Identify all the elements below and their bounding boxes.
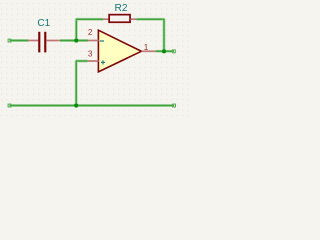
wire: input net from left end to C1 [10,39,29,42]
capacitor C1 pin 1 lead [28,40,38,42]
svg-text:R2: R2 [115,3,128,14]
svg-text:1: 1 [144,43,149,52]
wire: right vertical down to output [163,19,166,52]
op-amp U1 pin 1 lead (output) [142,50,156,52]
op-amp U1 body [98,30,141,72]
pin name minus [100,40,104,42]
svg-text:2: 2 [88,28,93,37]
resistor R2 pin 1 lead [103,18,109,20]
wire: vertical up to feedback row [75,19,78,41]
wire end (dangling) bottom left [8,104,11,107]
pin name plus [101,60,105,64]
capacitor C1 right plate [44,32,46,53]
node C junction bottom rail [74,103,79,108]
wire: vertical from pin 3 down to bottom rail [75,61,78,106]
svg-text:3: 3 [88,50,93,59]
wire: R2 to right vertical [136,18,164,21]
wire end (dangling) output right [172,50,175,53]
node A junction at C1 / feedback tap [74,38,79,43]
capacitor C1 pin 2 lead [46,40,60,42]
op-amp U1 pin 2 lead (inverting input) [88,40,99,42]
wire: bottom rail [10,104,175,107]
wire: pin 3 stub [76,60,88,63]
capacitor C1 left plate [38,32,40,53]
node B junction output/feedback [162,49,167,54]
wire end (dangling) left input [8,39,11,42]
wire: op-amp output to right end [156,50,174,53]
resistor R2 pin 2 lead [131,18,137,20]
wire: feedback top run to R2 [76,18,104,21]
op-amp U1 pin 3 lead (non-inverting input) [88,60,99,62]
wire end (dangling) bottom right [173,104,176,107]
background canvas [0,0,189,120]
resistor R2 body [109,15,130,23]
wire: C1 to op-amp inverting input [60,39,88,42]
svg-text:C1: C1 [37,18,50,29]
